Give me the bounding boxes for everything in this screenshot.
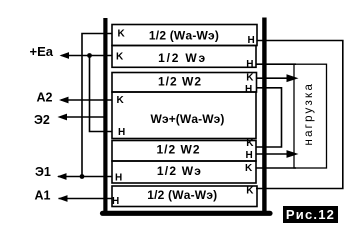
svg-text:H: H [245,84,252,95]
svg-text:K: K [117,95,125,106]
arrow A1 [58,195,68,202]
winding box W3 (1/2 W2 upper) [112,73,257,93]
svg-text:K: K [246,138,254,149]
winding box W4 [112,92,256,139]
svg-text:1/2 Wэ: 1/2 Wэ [157,164,202,178]
svg-text:H: H [248,35,255,46]
wire +Ea line [62,55,113,57]
core bottom yoke [103,211,271,216]
junction dot at E1 [80,174,85,179]
arrow E1 [57,173,67,180]
wire K1 to bus1 down to E1 line [82,34,112,177]
svg-text:K: K [116,52,124,63]
arrow A2 [59,97,69,104]
wire K3 to load arrow [257,77,290,79]
svg-text:Э2: Э2 [34,113,50,127]
svg-text:+Еа: +Еа [30,44,54,59]
arrow +Ea [60,52,70,59]
winding box W5 (1/2 W2 lower) [112,141,256,162]
svg-text:K: K [245,163,253,174]
load box [294,64,327,168]
svg-text:1/2 W2: 1/2 W2 [158,74,202,88]
svg-text:K: K [246,72,254,83]
arrow into load lower [287,150,299,158]
wire E2 line [61,116,107,118]
svg-text:нагрузка: нагрузка [303,82,315,146]
svg-text:А1: А1 [35,189,51,203]
wire E1 line [58,176,112,178]
svg-text:H: H [246,150,253,161]
wire K6 to load bottom [256,167,296,169]
svg-text:Wэ+(Wа-Wэ): Wэ+(Wа-Wэ) [151,112,225,126]
arrow E2 [58,114,68,121]
svg-text:Рис.12: Рис.12 [286,207,335,222]
svg-text:H: H [115,172,122,183]
svg-text:K: K [118,29,126,40]
wire H3 inner loop to K5 [256,88,282,147]
core right leg [262,18,266,214]
svg-text:1/2 (Wа-Wэ): 1/2 (Wа-Wэ) [149,28,219,42]
winding box W2 (1/2 We) [112,46,256,68]
wire bus2 +Ea to H4 [90,56,113,132]
figure badge Ris.12 [283,206,338,223]
wire A2 line [61,99,112,101]
wire H2 to load top [256,63,296,65]
junction dot at +Ea [87,53,92,58]
svg-text:А2: А2 [37,91,53,105]
wire A1 line [59,198,113,200]
svg-text:H: H [118,127,125,138]
svg-text:H: H [112,196,119,207]
winding box W7 [112,186,257,207]
svg-text:1/2 W2: 1/2 W2 [156,143,200,157]
core left leg [103,18,107,213]
svg-text:1/2 Wэ: 1/2 Wэ [158,51,207,65]
arrow into load upper [287,74,299,82]
winding box W6 [112,161,256,183]
svg-text:H: H [246,59,253,70]
winding box W1 [112,25,257,46]
svg-text:K: K [246,185,254,196]
wire H5 to load arrow [256,153,290,155]
svg-text:1/2 (Wа-Wэ): 1/2 (Wа-Wэ) [147,188,217,202]
svg-text:Э1: Э1 [35,165,51,179]
wire H1 right loop to K7 [256,41,343,189]
